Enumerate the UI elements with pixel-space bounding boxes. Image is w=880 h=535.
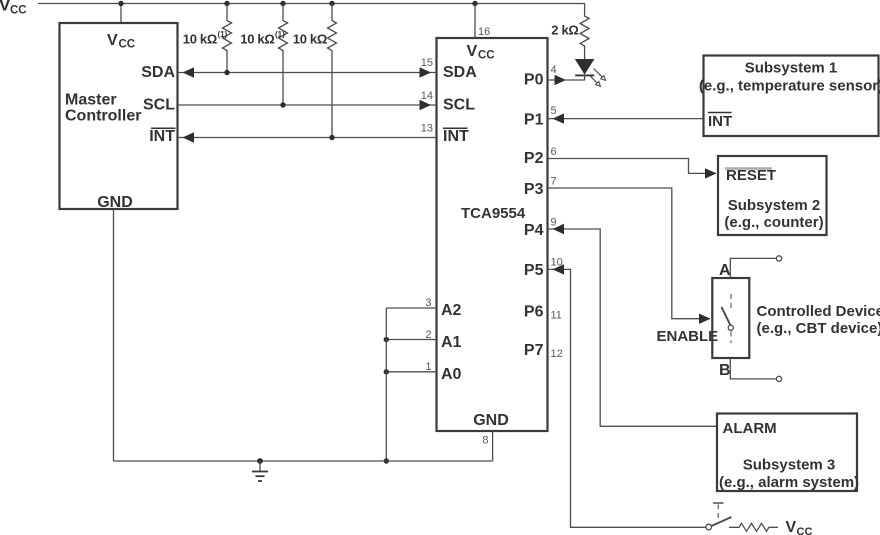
wire SCL net <box>178 104 436 106</box>
box Subsystem 3 ALARM <box>717 414 859 492</box>
svg-text:GND: GND <box>97 194 133 211</box>
node junction SCL/R2 <box>280 102 285 107</box>
svg-text:10 kΩ: 10 kΩ <box>183 32 217 47</box>
wire P0 to LED <box>548 79 585 81</box>
svg-text:ENABLE: ENABLE <box>657 328 719 345</box>
node junction rail/R1 <box>224 1 229 6</box>
svg-text:2: 2 <box>425 329 431 341</box>
svg-text:SDA: SDA <box>141 64 175 81</box>
svg-text:Subsystem 2: Subsystem 2 <box>728 197 821 214</box>
svg-text:(e.g., alarm system): (e.g., alarm system) <box>719 474 859 491</box>
svg-text:P3: P3 <box>524 181 544 198</box>
svg-text:13: 13 <box>421 123 433 135</box>
node junction rail/R2 <box>280 1 285 6</box>
svg-text:(e.g., counter): (e.g., counter) <box>724 214 823 231</box>
svg-text:8: 8 <box>482 435 488 447</box>
svg-text:Controller: Controller <box>65 108 141 125</box>
wire P3 to ENABLE <box>548 188 710 319</box>
wire ground rail <box>114 460 493 462</box>
svg-text:INT: INT <box>443 128 469 145</box>
wire A1 <box>386 339 436 341</box>
svg-text:7: 7 <box>551 176 557 188</box>
wire P4 to ALARM <box>548 229 717 426</box>
pin 16 wire VCC <box>474 4 476 39</box>
svg-text:3: 3 <box>425 297 431 309</box>
svg-text:V: V <box>107 32 118 49</box>
svg-text:9: 9 <box>551 217 557 229</box>
svg-text:INT: INT <box>149 128 175 145</box>
svg-text:10 kΩ: 10 kΩ <box>293 32 327 47</box>
svg-text:B: B <box>719 362 731 379</box>
wire CBT terminal B <box>730 358 776 379</box>
wire VCC top rail <box>38 3 585 5</box>
terminal B circle <box>776 376 781 381</box>
svg-text:14: 14 <box>421 90 433 102</box>
node junction rail/master <box>118 1 123 6</box>
svg-text:P5: P5 <box>524 262 544 279</box>
svg-text:INT: INT <box>708 113 732 130</box>
arrow INT into master <box>183 132 195 142</box>
svg-text:CC: CC <box>478 50 495 62</box>
resistor R1 10k SDA pullup <box>183 4 232 73</box>
svg-text:12: 12 <box>551 348 563 360</box>
arrow SCL into TCA9554 <box>420 100 432 110</box>
wire master GND down <box>113 209 115 461</box>
box Controlled Device (CBT) <box>712 262 880 379</box>
resistor R2 10k SCL pullup <box>240 4 287 106</box>
net VCC label top-left <box>0 0 27 17</box>
svg-text:Controlled Device: Controlled Device <box>757 303 880 320</box>
svg-text:(e.g., temperature sensor): (e.g., temperature sensor) <box>699 78 880 95</box>
svg-text:P2: P2 <box>524 150 544 167</box>
pin 8 wire GND <box>492 431 494 461</box>
svg-text:11: 11 <box>551 310 562 322</box>
switch inside CBT <box>722 294 734 343</box>
wire A2 <box>386 307 436 309</box>
node junction rail/pin16 <box>472 1 477 6</box>
box Subsystem 2 <box>718 156 827 235</box>
svg-text:5: 5 <box>551 105 557 117</box>
svg-text:RESET: RESET <box>726 167 776 184</box>
svg-text:CC: CC <box>797 526 813 535</box>
node junction rail/R3 <box>329 1 334 6</box>
IC box TCA9554 U2 <box>437 38 548 431</box>
svg-text:1: 1 <box>425 361 431 373</box>
wire address bus to ground <box>385 308 387 461</box>
svg-text:V: V <box>467 43 478 60</box>
node junction SDA/R1 <box>224 70 229 75</box>
svg-text:15: 15 <box>421 57 433 69</box>
svg-text:P6: P6 <box>524 304 544 321</box>
wire SDA net <box>178 72 436 74</box>
arrow ENABLE into controlled device <box>699 314 711 324</box>
wire INT net <box>178 137 436 139</box>
arrow P4 into TCA9554 <box>553 224 565 234</box>
svg-text:P4: P4 <box>524 222 544 239</box>
pushbutton switch SW1 <box>706 503 732 530</box>
LED D1 <box>575 59 606 86</box>
arrow P1 into TCA9554 <box>553 113 565 123</box>
svg-text:TCA9554: TCA9554 <box>461 205 526 222</box>
svg-text:A: A <box>719 262 731 279</box>
svg-text:4: 4 <box>551 64 557 76</box>
svg-text:A0: A0 <box>441 366 462 383</box>
svg-text:A1: A1 <box>441 334 462 351</box>
net VCC label bottom-right <box>786 519 813 535</box>
svg-text:6: 6 <box>551 146 557 158</box>
node junction A0/bus <box>384 369 389 374</box>
wire master VCC drop <box>120 4 122 24</box>
svg-text:10 kΩ: 10 kΩ <box>240 32 274 47</box>
arrow into RESET <box>705 168 717 178</box>
terminal A circle <box>776 256 781 261</box>
svg-text:Master: Master <box>65 92 117 109</box>
svg-text:GND: GND <box>473 412 509 429</box>
wire P2 to Subsystem2 RESET <box>548 159 716 174</box>
wire P1 from Subsystem1 <box>548 118 704 120</box>
node junction bus/ground rail <box>384 458 389 463</box>
svg-text:SDA: SDA <box>443 64 477 81</box>
wire A0 <box>386 371 436 373</box>
svg-text:V: V <box>786 519 797 535</box>
svg-text:2 kΩ: 2 kΩ <box>551 23 578 38</box>
svg-text:A2: A2 <box>441 302 462 319</box>
svg-text:SCL: SCL <box>143 97 175 114</box>
svg-text:(1): (1) <box>218 30 228 39</box>
arrow SDA into TCA9554 <box>420 67 432 77</box>
arrow P5 into TCA9554 <box>553 264 565 274</box>
ground symbol <box>252 458 268 481</box>
svg-text:ALARM: ALARM <box>723 420 777 437</box>
arrow P0 out <box>555 75 567 85</box>
svg-text:P1: P1 <box>524 112 544 129</box>
svg-text:16: 16 <box>478 26 490 38</box>
resistor R5 at VCC pullup bottom <box>729 523 778 531</box>
op box Master Controller U1 <box>60 23 178 211</box>
resistor R3 10k INT pullup <box>293 4 337 138</box>
box Subsystem 1 <box>699 56 880 137</box>
svg-text:(e.g., CBT device): (e.g., CBT device) <box>757 320 880 337</box>
svg-text:P0: P0 <box>524 72 544 89</box>
node junction INT/R3 <box>329 135 334 140</box>
svg-text:Subsystem 1: Subsystem 1 <box>745 60 838 77</box>
svg-text:CC: CC <box>119 39 136 51</box>
arrow SDA into master <box>183 67 195 77</box>
wire CBT terminal A <box>730 258 776 278</box>
svg-text:SCL: SCL <box>443 97 475 114</box>
svg-text:(1): (1) <box>275 30 285 39</box>
svg-text:P7: P7 <box>524 342 544 359</box>
resistor R4 2k LED <box>551 4 589 60</box>
svg-text:Subsystem 3: Subsystem 3 <box>743 457 836 474</box>
node junction A1/bus <box>384 337 389 342</box>
svg-text:CC: CC <box>10 5 27 17</box>
wire P5 to pushbutton <box>548 269 706 527</box>
